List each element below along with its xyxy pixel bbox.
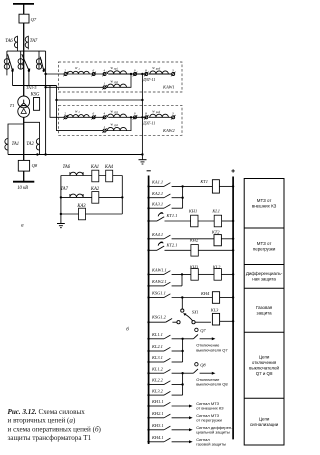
output relay coil KL2: [214, 269, 221, 281]
vertical wire v54 to KAW2 terminal 1: [57, 86, 104, 131]
svg-text:SX1: SX1: [192, 310, 199, 315]
relay KAW2 dashed box: [59, 105, 183, 135]
junction wire KA2.1/KA3.1 to KA1.1 row: [182, 186, 184, 208]
wire KL1 to plus rail: [222, 220, 234, 222]
current transformer TA6: [17, 36, 19, 50]
KAW1 terminal 4: [103, 73, 106, 76]
svg-text:КН1.1: КН1.1: [151, 399, 164, 404]
svg-text:отключения: отключения: [252, 360, 277, 365]
junction node relay neutral wire: [55, 99, 57, 101]
wire: winding2 to common bus: [28, 71, 30, 86]
relay coil KA2: [92, 192, 99, 204]
svg-text:выключателя Q8: выключателя Q8: [196, 382, 228, 387]
contact KH2.1: [149, 417, 164, 419]
KAW2 terminal 6: [92, 116, 95, 119]
wire KAW1 ur2 riser: [106, 74, 131, 87]
wire: KAW1 terminal 1 feeder: [46, 86, 104, 88]
current transformer TA7: [27, 36, 29, 50]
svg-text:Q8: Q8: [32, 163, 38, 168]
svg-text:защиты трансформатора Т1: защиты трансформатора Т1: [8, 434, 92, 442]
circuit breaker Q8: [18, 160, 29, 171]
breaker contact Q8: [183, 372, 194, 374]
output relay coil KL1: [214, 215, 221, 227]
KAW1 winding ur2: [107, 84, 126, 87]
phase arrow winding 2: [22, 54, 29, 70]
wire KL2 to plus rail: [221, 273, 233, 275]
svg-text:ТА6: ТА6: [5, 39, 13, 44]
svg-text:КА3.1: КА3.1: [151, 201, 163, 206]
wire KAW1 row1: [67, 73, 105, 75]
power transformer T1 LV winding: [18, 106, 30, 118]
svg-text:и схема оперативных цепей (б): и схема оперативных цепей (б): [8, 425, 102, 433]
relay KAW1 dashed box: [59, 62, 183, 92]
wire KSG1.1 junction down to SX1 upper terminal: [181, 298, 183, 310]
contact KA1.1: [149, 185, 164, 187]
svg-text:ная защита: ная защита: [252, 277, 276, 282]
svg-text:ур2: ур2: [113, 124, 119, 127]
junction wire KL1.1-KL3.1: [182, 339, 184, 362]
signal arrow KH1.1: [172, 405, 190, 407]
contact KH4.1: [149, 441, 164, 443]
svg-text:КА2: КА2: [90, 187, 100, 192]
svg-text:4: 4: [103, 68, 105, 72]
wire: Q7 down through CT box to T1: [23, 23, 25, 96]
svg-text:КА4: КА4: [104, 165, 114, 170]
svg-text:КА1: КА1: [90, 165, 99, 170]
KAW2 terminal 3: [172, 116, 175, 119]
svg-text:КАW1.1: КАW1.1: [151, 268, 167, 273]
contact KSG1.1: [149, 297, 164, 299]
svg-text:КL1: КL1: [211, 209, 220, 214]
contact KL1.1: [149, 338, 164, 340]
KAW2 terminal 9: [134, 116, 137, 119]
svg-text:КН3: КН3: [189, 264, 199, 269]
svg-text:КАW2.1: КАW2.1: [151, 279, 167, 284]
svg-text:КА1.1: КА1.1: [151, 180, 163, 185]
svg-text:KAW2: KAW2: [162, 128, 175, 133]
contact KH3.1: [149, 429, 164, 431]
svg-text:9: 9: [134, 112, 136, 116]
wire KH4 to plus rail: [220, 297, 234, 299]
branch wire to TA1: [8, 124, 24, 155]
wire: T1 to Q8: [23, 117, 25, 160]
svg-text:Цепи: Цепи: [259, 416, 270, 421]
svg-text:и вторичных цепей (а): и вторичных цепей (а): [8, 417, 76, 425]
svg-text:10 кВ: 10 кВ: [17, 186, 28, 191]
svg-text:защита: защита: [257, 311, 273, 316]
svg-text:газовой защиты: газовой защиты: [196, 442, 226, 447]
svg-text:ДЗТ-11: ДЗТ-11: [142, 121, 155, 126]
svg-text:ТА6: ТА6: [63, 165, 71, 170]
svg-text:2: 2: [64, 112, 66, 116]
svg-text:Q7: Q7: [31, 17, 37, 22]
contact KAW2.1: [149, 285, 164, 287]
svg-text:циальной защиты: циальной защиты: [196, 430, 230, 435]
TA3-5 common bus: [13, 85, 57, 87]
contact KT2.1: [149, 249, 157, 251]
svg-text:Q8: Q8: [200, 363, 206, 368]
svg-text:б: б: [126, 326, 129, 333]
output relay coil KL3: [212, 313, 219, 325]
10 kV busbar: [13, 181, 34, 183]
svg-text:КН2: КН2: [189, 238, 199, 243]
svg-text:от внешних КЗ: от внешних КЗ: [196, 406, 224, 411]
gas relay KSG: [34, 98, 40, 111]
plus supply sign: [231, 169, 234, 172]
svg-text:ур2: ур2: [113, 81, 119, 84]
contact KL2.2: [149, 384, 164, 386]
phase arrow winding 1: [8, 54, 13, 70]
ground: CT secondary common: [139, 159, 147, 161]
protection functions table: [244, 179, 284, 446]
svg-text:6: 6: [93, 112, 95, 116]
svg-text:КА4.1: КА4.1: [151, 232, 163, 237]
left rail (minus): [148, 176, 150, 445]
TA7 secondary winding: [70, 194, 83, 197]
left bus of KA relay circuit: [60, 176, 62, 215]
svg-text:КL3.2: КL3.2: [151, 388, 164, 393]
contact KSG1.2: [149, 321, 166, 323]
branch wire to TA2: [24, 122, 40, 154]
svg-text:3: 3: [172, 68, 174, 72]
minus supply label: [147, 170, 151, 172]
svg-text:ТА1: ТА1: [12, 142, 19, 147]
svg-text:раб: раб: [155, 68, 161, 71]
svg-text:КL2.2: КL2.2: [151, 378, 164, 383]
svg-text:МТЗ от: МТЗ от: [257, 241, 272, 246]
TA3-5 secondary winding 3: [38, 51, 40, 69]
wire KAW2 ur2 riser: [106, 117, 131, 130]
svg-text:KAW1: KAW1: [162, 85, 175, 90]
wire: Q8 to 10 kV busbar: [23, 171, 25, 182]
KAW1 terminal 6: [92, 73, 95, 76]
svg-text:сигнализации: сигнализации: [250, 422, 279, 427]
relay coil KA4: [106, 170, 113, 182]
svg-text:КН3.1: КН3.1: [151, 423, 164, 428]
svg-text:КА3: КА3: [76, 204, 86, 209]
contact KT1.1: [149, 220, 157, 222]
KAW2 terminal 1: [103, 129, 106, 132]
svg-text:Цепи: Цепи: [259, 355, 270, 360]
junction wire KL1.2-KL3.2: [182, 373, 184, 395]
svg-text:Рис. 3.12. Схема силовых: Рис. 3.12. Схема силовых: [8, 408, 86, 416]
contact KH1.1: [149, 405, 164, 407]
indicating relay coil KH3: [191, 269, 198, 281]
current transformer TA1: [5, 139, 8, 150]
svg-text:выключателя Q7: выключателя Q7: [196, 347, 228, 352]
trip output arrow Q7: [200, 338, 213, 340]
svg-text:КН1: КН1: [188, 209, 197, 214]
signal arrow KH2.1: [172, 417, 190, 419]
contact KA3.1: [149, 207, 164, 209]
wire KH3-KL2: [198, 273, 214, 275]
breaker contact Q7: [183, 338, 194, 340]
svg-text:от перегрузки: от перегрузки: [196, 418, 222, 423]
svg-text:раб: раб: [155, 111, 161, 114]
phase arrow winding 3: [40, 57, 44, 71]
contact KA2.1: [149, 197, 164, 199]
svg-text:8: 8: [145, 112, 147, 116]
wire KH1-KL1: [198, 220, 214, 222]
circuit breaker Q7: [19, 14, 29, 23]
indicating relay coil KH1: [191, 215, 198, 227]
contact KL3.2: [149, 394, 164, 396]
wire KAW2 row1: [67, 116, 105, 118]
time relay coil KT1: [212, 180, 219, 193]
vertical wire v50 to KAW2 terminal 2: [50, 86, 64, 118]
contact KL2.1: [149, 350, 164, 352]
common return wire to ground: [8, 154, 142, 156]
svg-text:КSG1.2: КSG1.2: [151, 314, 167, 319]
contact KAW1.1: [149, 273, 164, 275]
svg-text:КL3.1: КL3.1: [151, 355, 163, 360]
KAW2 winding ur2: [107, 127, 126, 130]
row TA7-KA2: [61, 196, 122, 198]
svg-text:КSG1.1: КSG1.1: [151, 291, 166, 296]
svg-text:4: 4: [103, 112, 105, 116]
svg-text:КА2.1: КА2.1: [151, 191, 163, 196]
svg-text:КН4.1: КН4.1: [151, 435, 164, 440]
KAW2 terminal 4: [103, 116, 106, 119]
neutral wire from KAW1 row to ground: [141, 73, 143, 75]
relay coil KA3: [79, 208, 86, 220]
time relay coil KT2: [214, 235, 221, 246]
KAW1 terminal 2: [64, 73, 67, 76]
svg-text:Q7 и Q8: Q7 и Q8: [256, 371, 273, 376]
svg-text:КН2.1: КН2.1: [151, 411, 164, 416]
wire SX1 to KL3: [195, 321, 211, 323]
row TA6-KA1-KA4: [61, 175, 122, 177]
CT group TA3-5 frame top wire: [7, 50, 46, 52]
contact KL3.1: [149, 361, 164, 363]
TA6 secondary winding: [70, 172, 83, 175]
wire: busbar to Q7: [23, 4, 25, 14]
svg-text:выключателей: выключателей: [249, 364, 279, 370]
svg-text:КТ1: КТ1: [199, 179, 208, 184]
svg-text:8: 8: [145, 68, 147, 72]
KAW1 winding w1: [68, 71, 90, 74]
current transformer TA2: [36, 139, 39, 150]
relay coil KA1: [92, 170, 99, 182]
svg-text:ур1: ур1: [113, 68, 119, 71]
KAW1 winding rab: [150, 71, 169, 74]
indicating relay coil KH4: [212, 292, 219, 304]
KAW1 terminal 9: [134, 73, 137, 76]
KAW1 winding ur1: [107, 71, 126, 74]
svg-text:МТЗ от: МТЗ от: [257, 198, 272, 203]
TA3-5 frame left stub: [6, 51, 8, 59]
svg-text:9: 9: [134, 68, 136, 72]
KAW2 winding rab: [150, 114, 169, 117]
contact KL1.2: [149, 372, 164, 374]
svg-text:КТ1.1: КТ1.1: [166, 213, 178, 218]
svg-text:Газовая: Газовая: [256, 305, 273, 310]
KAW2 terminal 2: [64, 116, 67, 119]
KAW2 terminal 8: [145, 116, 148, 119]
indicating relay coil KH2: [191, 245, 198, 257]
wire KL3 to plus rail: [220, 320, 234, 322]
svg-text:КL1.2: КL1.2: [151, 366, 164, 371]
svg-text:перегрузки: перегрузки: [253, 247, 276, 252]
svg-text:ур1: ур1: [113, 111, 119, 114]
SX1 upper terminal: [181, 309, 184, 312]
right bus of KA relay circuit: [121, 176, 123, 215]
contact KA4.1: [149, 238, 164, 240]
wire: winding1 to common bus: [12, 71, 14, 86]
svg-text:2: 2: [64, 68, 66, 72]
KAW1 terminal 3: [172, 73, 175, 76]
svg-text:ДЗТ-11: ДЗТ-11: [142, 77, 155, 82]
svg-text:KSG: KSG: [30, 92, 40, 97]
TA3-5 frame right edge: [45, 51, 47, 154]
svg-text:ТА2: ТА2: [26, 142, 34, 147]
svg-text:Дифференциаль-: Дифференциаль-: [246, 271, 283, 276]
wire KH2 to plus rail: [198, 249, 233, 251]
signal arrow KH4.1: [172, 441, 190, 443]
junction wire KAW2.1 to KAW1.1 row: [181, 274, 183, 286]
power transformer T1 HV winding: [18, 96, 30, 108]
row KA3: [61, 213, 122, 215]
svg-text:1: 1: [103, 82, 105, 86]
svg-text:ТА7: ТА7: [61, 187, 69, 192]
trip output arrow Q8: [200, 372, 213, 374]
svg-text:6: 6: [93, 68, 95, 72]
svg-text:ТА7: ТА7: [30, 39, 38, 44]
svg-text:КL2.1: КL2.1: [151, 344, 163, 349]
svg-text:КТ2: КТ2: [211, 230, 220, 235]
wire: winding3 output to KAW1 terminal 2: [46, 73, 65, 75]
KAW1 terminal 8: [145, 73, 148, 76]
wire KT1 to plus rail: [219, 185, 233, 187]
svg-text:1: 1: [103, 125, 105, 129]
svg-text:Т1: Т1: [10, 103, 15, 108]
signal arrow KH3.1: [172, 429, 190, 431]
KAW2 winding ur1: [107, 114, 126, 117]
TA3-5 secondary winding 1: [17, 49, 19, 51]
110 kV busbar: [13, 3, 34, 5]
wire KT2 to plus rail: [221, 238, 233, 240]
figure caption: [8, 408, 102, 442]
svg-text:КL1.1: КL1.1: [151, 332, 163, 337]
junction frame edge at common node: [44, 153, 46, 155]
svg-text:Q7: Q7: [200, 328, 206, 333]
ground: KA circuit: [60, 214, 62, 224]
switch SX1: [177, 321, 180, 324]
TA3-5 secondary winding 2: [20, 51, 22, 69]
svg-text:КН4: КН4: [200, 291, 210, 296]
svg-text:3: 3: [172, 112, 174, 116]
right rail (plus): [232, 177, 234, 440]
svg-text:а: а: [21, 223, 24, 229]
svg-text:КL2: КL2: [212, 264, 221, 269]
svg-text:КL3: КL3: [210, 307, 219, 312]
svg-text:внешних КЗ: внешних КЗ: [252, 204, 277, 209]
KAW1 terminal 1: [103, 86, 106, 89]
KAW2 winding w1: [68, 115, 90, 118]
svg-text:КТ2.1: КТ2.1: [166, 242, 178, 247]
